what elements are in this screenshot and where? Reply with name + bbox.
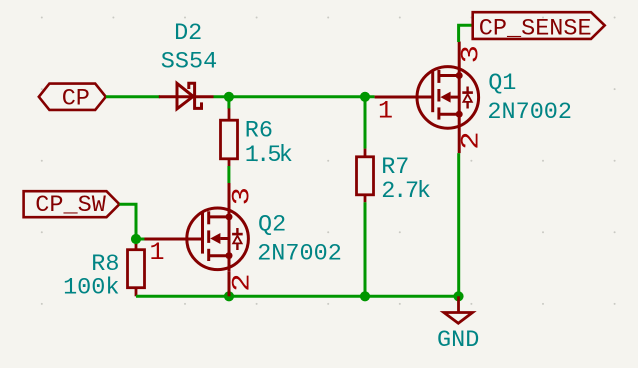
svg-text:1: 1 — [149, 238, 164, 267]
wire junction down to R6 — [227, 97, 230, 109]
wire junction to Q2 gate — [136, 238, 145, 241]
ground symbol GND — [444, 296, 473, 323]
svg-text:2: 2 — [229, 273, 257, 291]
junction R7 at rail — [360, 291, 370, 301]
transistor Q1 2N7002 — [375, 42, 479, 154]
resistor R7 — [357, 149, 374, 203]
svg-text:2N7002: 2N7002 — [487, 99, 572, 126]
svg-text:Q2: Q2 — [258, 212, 286, 239]
resistor R8 — [128, 244, 145, 296]
wire Q1 drain to CP_SENSE — [459, 25, 472, 42]
svg-text:Q1: Q1 — [488, 70, 516, 97]
diode D2 — [159, 83, 214, 109]
svg-text:1: 1 — [378, 97, 393, 126]
svg-text:SS54: SS54 — [161, 48, 217, 75]
wire CP_SW to junction — [119, 204, 136, 245]
svg-text:CP_SW: CP_SW — [35, 192, 106, 219]
svg-text:R6: R6 — [245, 118, 273, 145]
label CP_SW — [24, 191, 120, 217]
transistor Q2 2N7002 — [144, 183, 248, 271]
junction at CP_SW / R8 / Q2 gate — [131, 234, 141, 244]
bottom rail wire — [136, 295, 459, 298]
svg-text:CP: CP — [62, 86, 90, 113]
label CP_SENSE — [473, 12, 605, 39]
wire Q1 source down to rail — [457, 153, 460, 296]
Q2 source pin to rail — [228, 271, 231, 296]
svg-text:2.7k: 2.7k — [381, 178, 430, 205]
resistor R6 — [221, 108, 238, 166]
wire junction down to R7 — [364, 97, 367, 149]
svg-text:CP_SENSE: CP_SENSE — [479, 16, 592, 43]
svg-text:GND: GND — [437, 327, 479, 354]
label CP — [39, 84, 106, 110]
Q2 source arrow — [210, 233, 220, 244]
svg-text:D2: D2 — [174, 20, 202, 47]
svg-text:2N7002: 2N7002 — [257, 240, 342, 267]
svg-text:100k: 100k — [63, 274, 119, 301]
junction at R7 top — [360, 92, 370, 102]
Q2 drain dot — [226, 213, 233, 220]
junction GND at rail — [453, 291, 463, 301]
svg-text:1.5k: 1.5k — [245, 142, 292, 169]
wire D2 cathode to Q1 gate — [214, 95, 375, 98]
wire CP to D2 anode — [106, 95, 160, 98]
svg-text:3: 3 — [229, 187, 257, 205]
wire R6 to Q2 drain — [227, 166, 230, 183]
Q1 drain dot — [456, 72, 463, 79]
svg-text:3: 3 — [458, 45, 486, 63]
Q2 source dot — [226, 252, 233, 259]
Q1 source arrow — [440, 92, 450, 103]
junction Q2 source at rail — [224, 291, 234, 301]
svg-text:2: 2 — [458, 131, 486, 149]
junction at D2 cathode / R6 — [224, 92, 234, 102]
wire R7 to bottom rail — [364, 202, 367, 296]
Q1 source dot — [456, 111, 463, 118]
